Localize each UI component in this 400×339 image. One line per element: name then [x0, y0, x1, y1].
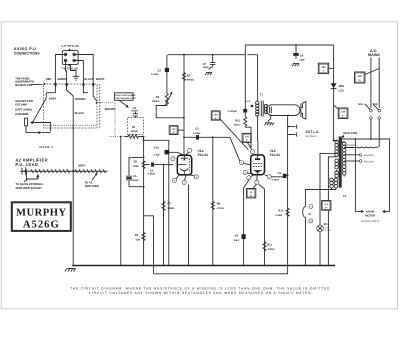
resistor R6 — [183, 54, 195, 156]
heater wire to pilot lamp — [320, 153, 337, 225]
mains line L — [370, 58, 372, 109]
ext amp socket symbol — [25, 118, 28, 126]
svg-text:250kΩ: 250kΩ — [152, 100, 159, 103]
svg-text:T2: T2 — [343, 195, 347, 198]
svg-text:R12: R12 — [278, 209, 283, 212]
A2 amplifier PU lead title — [15, 157, 48, 167]
heater return wire — [328, 157, 336, 266]
dashed double edge right — [99, 84, 101, 128]
resistor R12 on feedback line — [275, 115, 289, 265]
svg-text:220/240V: 220/240V — [364, 154, 375, 157]
wire black — [76, 61, 84, 87]
svg-text:(STEREO ONLY): (STEREO ONLY) — [361, 220, 380, 223]
dotted brown wire to R1 — [96, 102, 98, 104]
svg-text:(CHANNEL: (CHANNEL — [15, 113, 29, 116]
svg-text:BROWN: BROWN — [105, 108, 116, 111]
svg-text:V1: V1 — [308, 213, 312, 216]
svg-text:“78”STYLUS: “78”STYLUS — [61, 67, 78, 71]
pilot lamp PL1 — [317, 223, 331, 266]
svg-text:240/260V: 240/260V — [345, 144, 356, 147]
svg-text:GREY: GREY — [49, 98, 57, 101]
T2 primary top wire — [342, 139, 345, 142]
wire stub to heater loop — [144, 216, 154, 274]
svg-text:CIRCUIT VOLTAGES ARE SHOWN WIT: CIRCUIT VOLTAGES ARE SHOWN WITHIN RECTAN… — [89, 291, 313, 295]
svg-text:MR1: MR1 — [339, 85, 345, 88]
dashed box around R1 — [128, 118, 144, 135]
capacitor C8 reservoir — [292, 44, 305, 66]
wire pot bottom jog — [156, 104, 184, 118]
svg-text:10MΩ: 10MΩ — [167, 207, 174, 210]
svg-text:GRAM: GRAM — [366, 211, 375, 214]
capacitor C9 — [234, 234, 246, 242]
capacitor C1 coupling — [144, 162, 160, 175]
svg-text:6·3V: 6·3V — [325, 226, 330, 229]
svg-text:GREEN: GREEN — [57, 78, 67, 81]
svg-text:100µF: 100µF — [132, 179, 139, 182]
svg-text:BLACK: BLACK — [84, 78, 93, 81]
T2 primary winding right — [342, 142, 346, 177]
grid wire to V1a — [160, 164, 173, 166]
svg-text:50pF: 50pF — [203, 66, 209, 69]
note to A526G external amplifier socket — [15, 180, 43, 190]
svg-text:THE CIRCUIT DIAGRAM. WHERE THE: THE CIRCUIT DIAGRAM. WHERE THE RESISTANC… — [70, 286, 332, 290]
svg-text:AMPLIFIER SOCKET: AMPLIFIER SOCKET — [15, 187, 42, 190]
svg-text:EXT AMP: EXT AMP — [15, 103, 27, 106]
svg-text:C3: C3 — [195, 128, 199, 131]
svg-text:2·5µF: 2·5µF — [154, 154, 161, 157]
capacitor C4 — [271, 172, 288, 181]
svg-text:MURPHY: MURPHY — [16, 207, 67, 218]
svg-text:600pF: 600pF — [131, 110, 138, 113]
voltage box 245V — [318, 63, 333, 73]
svg-text:S1a: S1a — [358, 103, 363, 106]
note to A2 amplifier — [85, 173, 100, 189]
mains line N — [378, 58, 380, 109]
svg-text:0·15A: 0·15A — [325, 229, 331, 232]
svg-text:A526G: A526G — [23, 219, 60, 230]
secondary top to rectifier — [334, 140, 337, 142]
socket arrows into panel — [54, 82, 95, 86]
voltage box 6.3V — [322, 201, 331, 211]
svg-text:50µF: 50µF — [234, 239, 240, 242]
svg-text:MAINS: MAINS — [368, 53, 380, 57]
chassis ground at bus left end — [65, 269, 76, 272]
svg-text:EXT L.S.: EXT L.S. — [306, 130, 320, 134]
coax earth loop — [26, 172, 37, 179]
svg-text:470kΩ: 470kΩ — [267, 248, 274, 251]
svg-text:R6: R6 — [187, 74, 191, 77]
metal rectifier MR1 LC9 — [331, 83, 345, 92]
wire below S1a to transformer top — [342, 119, 371, 139]
tap 240/260V with wavy link — [344, 144, 379, 148]
loop wires for C5 branch — [129, 157, 144, 186]
svg-text:BASE-PLATE: BASE-PLATE — [15, 84, 32, 87]
pentode V1b PCL83 — [240, 150, 272, 185]
svg-text:0·04µF: 0·04µF — [272, 179, 280, 182]
ext LS terminals — [287, 125, 319, 138]
svg-text:680kΩ: 680kΩ — [187, 79, 194, 82]
transformer T2 core — [339, 137, 342, 188]
svg-text:R13: R13 — [235, 119, 240, 122]
svg-text:10kΩ: 10kΩ — [234, 124, 240, 127]
HT vertical with rectifier — [333, 45, 335, 141]
cathode wire V1a to bus — [188, 185, 190, 266]
murphy logo box — [12, 202, 71, 231]
wire red — [55, 55, 64, 87]
note THE PANEL UNDERNEATH BASE-PLATE — [15, 78, 45, 87]
svg-text:0·05µF: 0·05µF — [148, 173, 156, 176]
svg-text:TO A2: TO A2 — [85, 182, 93, 185]
potentiometer R4 volume — [152, 92, 173, 106]
svg-text:POINT EARTH-WIRE: POINT EARTH-WIRE — [115, 94, 136, 97]
main input vertical wire — [143, 137, 145, 266]
switch S1a — [358, 103, 372, 119]
anode junction V1a — [183, 136, 185, 138]
gram motor drop left — [354, 139, 356, 212]
V1 heater pins — [303, 204, 313, 266]
svg-text:R2: R2 — [134, 161, 138, 164]
svg-text:TO A526G EXTERNAL: TO A526G EXTERNAL — [15, 183, 43, 186]
voltage box 20V — [169, 126, 184, 135]
svg-text:BLACK: BLACK — [75, 112, 84, 115]
svg-text:1MΩ: 1MΩ — [133, 165, 138, 168]
resistor R3 — [135, 233, 145, 242]
svg-text:C9: C9 — [235, 234, 239, 237]
svg-text:32µF: 32µF — [299, 59, 305, 62]
HT rail lower (y=54.7) — [168, 54, 246, 56]
node ground bus — [72, 265, 335, 267]
tap 220/240V — [344, 154, 374, 158]
svg-text:PL1: PL1 — [324, 223, 329, 226]
heater loop wire — [154, 266, 288, 274]
svg-text:0·04µF: 0·04µF — [151, 73, 159, 76]
svg-text:CONNECTIONS: CONNECTIONS — [14, 51, 41, 55]
svg-text:5·6kΩ: 5·6kΩ — [275, 214, 282, 217]
svg-text:0·002µF: 0·002µF — [228, 110, 237, 113]
svg-text:C8: C8 — [300, 54, 304, 57]
wire V1b cathode branch to C9 — [244, 180, 249, 266]
resistor R8 — [211, 136, 224, 265]
svg-text:HEAT PINS: HEAT PINS — [343, 132, 357, 135]
svg-text:R7: R7 — [167, 202, 171, 205]
svg-text:AND SOLDER AT 45°: AND SOLDER AT 45° — [115, 97, 136, 100]
svg-text:R8: R8 — [217, 202, 221, 205]
svg-text:400kΩ: 400kΩ — [131, 130, 138, 133]
ground under cartridge — [71, 66, 77, 76]
wire diagonal to V1b grid — [230, 137, 240, 161]
wire below S1b to voltage tap — [378, 119, 380, 147]
svg-text:C2: C2 — [157, 69, 161, 72]
capacitor C3 coupling — [184, 128, 230, 140]
svg-text:T1: T1 — [260, 94, 264, 97]
capacitor C2 — [151, 55, 169, 93]
svg-text:240: 240 — [358, 75, 363, 78]
resistor R2 — [133, 161, 145, 169]
pickup cartridge — [62, 49, 78, 66]
title A526G P.U. CONNECTIONS — [14, 47, 41, 56]
svg-text:R4: R4 — [156, 96, 160, 99]
svg-text:470kΩ: 470kΩ — [217, 207, 224, 210]
junction of black wire and coax — [72, 170, 74, 172]
wire across to gram motor drop — [371, 139, 390, 212]
wire green — [66, 62, 67, 87]
svg-text:RED: RED — [46, 78, 52, 81]
svg-text:R1: R1 — [132, 126, 136, 129]
grey wire to socket — [33, 93, 51, 132]
svg-text:600Ω: 600Ω — [245, 100, 251, 103]
triode V1a PCL83 — [171, 148, 199, 184]
capacitor C7 with ground — [203, 54, 216, 75]
heater wire to V1 — [305, 190, 336, 205]
capacitor C6 electrolytic — [126, 157, 139, 186]
transformer T1 — [245, 55, 267, 117]
voltage box 12V cathode — [246, 185, 256, 198]
svg-text:R3: R3 — [135, 234, 139, 237]
note SOCKET FOR EXT AMP (LEFT HAND) CHANNEL — [15, 100, 33, 116]
junction node R1 output — [143, 136, 145, 138]
svg-text:C5: C5 — [133, 175, 137, 178]
svg-text:PCL83: PCL83 — [270, 153, 280, 157]
svg-text:BROWN: BROWN — [75, 98, 86, 101]
svg-text:P.U. LEAD: P.U. LEAD — [15, 162, 38, 167]
wire V1b anode to T1 — [257, 116, 259, 155]
T2 secondary windings left — [330, 140, 339, 189]
wire C10 feed — [144, 140, 184, 265]
svg-text:“L.P”STYLUS: “L.P”STYLUS — [61, 44, 79, 48]
svg-text:GREY: GREY — [78, 164, 86, 167]
capacitor C6 screen feed blob — [228, 109, 247, 113]
svg-text:R11: R11 — [267, 244, 272, 247]
svg-text:245: 245 — [322, 66, 327, 69]
resistor R13 — [234, 55, 251, 149]
svg-text:0·02µF: 0·02µF — [193, 132, 201, 135]
svg-text:A526G P.U: A526G P.U — [14, 47, 37, 51]
HT rail upper (y=45) — [245, 45, 333, 55]
svg-text:WHITE: WHITE — [96, 78, 105, 81]
resistor R7 — [162, 164, 174, 266]
heat pins label — [341, 132, 358, 137]
resistor R11 — [259, 184, 275, 265]
svg-text:200/220V: 200/220V — [364, 160, 375, 163]
voltage box 170V — [242, 133, 251, 149]
loudspeaker — [267, 102, 306, 120]
svg-text:(LEFT HAND): (LEFT HAND) — [15, 109, 32, 112]
switch S1b — [373, 103, 381, 119]
boxed note (soldering) — [115, 93, 137, 108]
svg-text:(3Ω ONLY): (3Ω ONLY) — [305, 135, 316, 138]
coax lead with hatching — [21, 167, 108, 175]
dashed panel box — [44, 84, 97, 128]
svg-text:ISSUE 2: ISSUE 2 — [39, 146, 54, 149]
svg-text:1kΩ: 1kΩ — [135, 239, 140, 242]
gram motor label and arrows — [355, 210, 389, 223]
svg-text:AMPLIFIER: AMPLIFIER — [85, 185, 100, 188]
wire white — [76, 55, 94, 87]
svg-text:MOTOR: MOTOR — [365, 215, 375, 218]
svg-text:C10: C10 — [154, 147, 159, 150]
black screen wire vertical — [72, 96, 74, 266]
voltage box 210V — [334, 105, 348, 118]
voltage box 100V — [211, 111, 248, 150]
capacitor C5 (600pF) — [131, 107, 138, 118]
ground from speaker — [264, 115, 274, 125]
resistor R1 — [124, 126, 143, 138]
tap 200/220V — [344, 160, 374, 164]
wire vertical from R1 junction to bus — [120, 137, 122, 266]
svg-text:PCL83: PCL83 — [198, 153, 208, 157]
svg-text:C4: C4 — [278, 172, 282, 175]
capacitor C10 — [154, 147, 170, 157]
svg-text:LC9: LC9 — [339, 90, 345, 93]
svg-text:210: 210 — [341, 111, 346, 114]
voltage box 240V mains — [355, 69, 380, 84]
